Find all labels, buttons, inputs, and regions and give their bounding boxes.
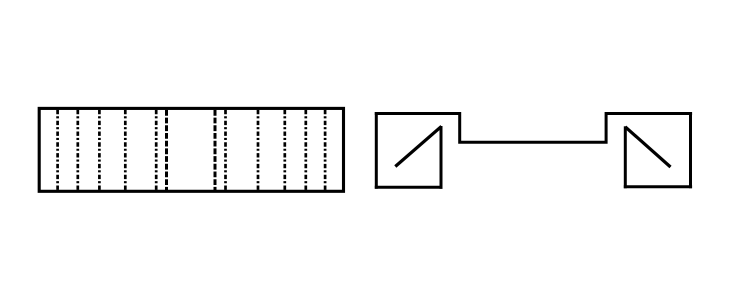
variable element box A2: right edge	[689, 112, 692, 188]
electrode tap line 7	[257, 110, 260, 190]
variable element box A2: left edge (starts at diagonal apex)	[624, 126, 627, 188]
variable element box A1: diagonal	[395, 126, 441, 166]
electrode tap line 2	[76, 110, 79, 190]
variable element box A2: bottom edge	[624, 185, 692, 188]
wire: left box top edge, step down, horizontal run, step up, right box top edge	[375, 114, 692, 143]
electrode tap line 4	[124, 110, 127, 190]
dispersive delay line DL1 body	[39, 108, 343, 191]
section boundary line right (long dash)	[214, 110, 217, 190]
variable element box A1: left edge	[375, 112, 378, 189]
electrode tap line 5	[155, 110, 158, 190]
electrode tap line 1	[56, 110, 59, 190]
electrode tap line 9	[304, 110, 307, 190]
variable element box A1: right edge (starts at diagonal apex)	[440, 126, 443, 189]
electrode tap line 6	[224, 110, 227, 190]
section boundary line left (long dash)	[165, 110, 168, 190]
variable element box A2: diagonal	[625, 127, 670, 167]
variable element box A1: bottom edge	[375, 186, 443, 189]
electrode tap line 8	[283, 110, 286, 190]
electrode tap line 3	[98, 110, 101, 190]
electrode tap line 10	[324, 110, 327, 190]
